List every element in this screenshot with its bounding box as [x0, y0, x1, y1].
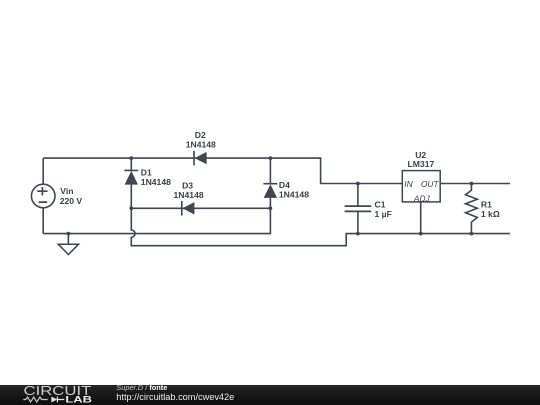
- node D3 row / D1: [129, 206, 133, 210]
- ground: [58, 232, 78, 255]
- wire source top lead: [42, 158, 44, 184]
- pin label IN: [404, 179, 413, 189]
- logo diode: [51, 396, 57, 402]
- wire top rail from source to elbow and into IN: [43, 158, 402, 183]
- diode D3: [182, 201, 195, 216]
- label R1 1 kOhm: [481, 199, 500, 219]
- svg-text:Vin: Vin: [60, 186, 73, 196]
- svg-text:LM317: LM317: [408, 159, 435, 169]
- label D3 1N4148: [174, 181, 204, 201]
- wire with hop from D1/D3 junction down and right to ADJ rail: [131, 208, 510, 245]
- node C1 top: [356, 182, 360, 186]
- footer title text: [116, 383, 167, 392]
- svg-text:IN: IN: [404, 179, 413, 189]
- svg-text:1 kΩ: 1 kΩ: [481, 209, 500, 219]
- node D3 row / D4: [269, 206, 273, 210]
- svg-text:D1: D1: [141, 167, 152, 177]
- svg-text:1N4148: 1N4148: [141, 177, 171, 187]
- node top rail / D1: [129, 156, 133, 160]
- diode D1: [124, 158, 138, 208]
- pin label OUT: [421, 179, 440, 189]
- svg-text:R1: R1: [481, 199, 492, 209]
- voltage source V1 circle: [31, 184, 55, 208]
- label C1 1uF: [375, 200, 392, 220]
- label D4 1N4148: [279, 180, 309, 199]
- node C1 bottom: [356, 232, 360, 236]
- svg-text:LAB: LAB: [65, 394, 92, 404]
- svg-text:1 µF: 1 µF: [375, 209, 392, 219]
- svg-text:D3: D3: [182, 181, 193, 191]
- node R1 top: [470, 182, 474, 186]
- svg-text:1N4148: 1N4148: [279, 190, 309, 200]
- wire source bottom lead: [42, 208, 44, 234]
- logo resistor squiggle: [23, 397, 47, 402]
- footer bar: [0, 385, 540, 405]
- svg-text:1N4148: 1N4148: [186, 139, 216, 149]
- wire OUT to right edge: [440, 183, 510, 185]
- pin label ADJ: [413, 193, 431, 203]
- node R1 bottom: [470, 232, 474, 236]
- capacitor C1: [345, 184, 372, 234]
- node top rail / D4: [269, 156, 273, 160]
- svg-text:OUT: OUT: [421, 179, 440, 189]
- resistor R1: [466, 184, 478, 234]
- label Vin 220 V: [60, 186, 83, 206]
- node ADJ rail: [419, 232, 423, 236]
- footer url text: [116, 392, 234, 402]
- wire bottom rail from source to D4 junction: [43, 208, 270, 233]
- label U2 LM317: [408, 150, 435, 169]
- svg-text:ADJ: ADJ: [413, 193, 431, 203]
- svg-text:220 V: 220 V: [60, 196, 83, 206]
- op-amp box U2 LM317: [402, 171, 440, 202]
- wire D3 row between junctions: [131, 207, 270, 209]
- svg-text:C1: C1: [375, 200, 386, 210]
- label D2 1N4148: [186, 130, 216, 149]
- svg-text:1N4148: 1N4148: [174, 190, 204, 200]
- wire ADJ lead: [420, 202, 422, 234]
- diode D4: [263, 158, 277, 208]
- label D1 1N4148: [141, 167, 171, 187]
- diode D2: [194, 151, 207, 166]
